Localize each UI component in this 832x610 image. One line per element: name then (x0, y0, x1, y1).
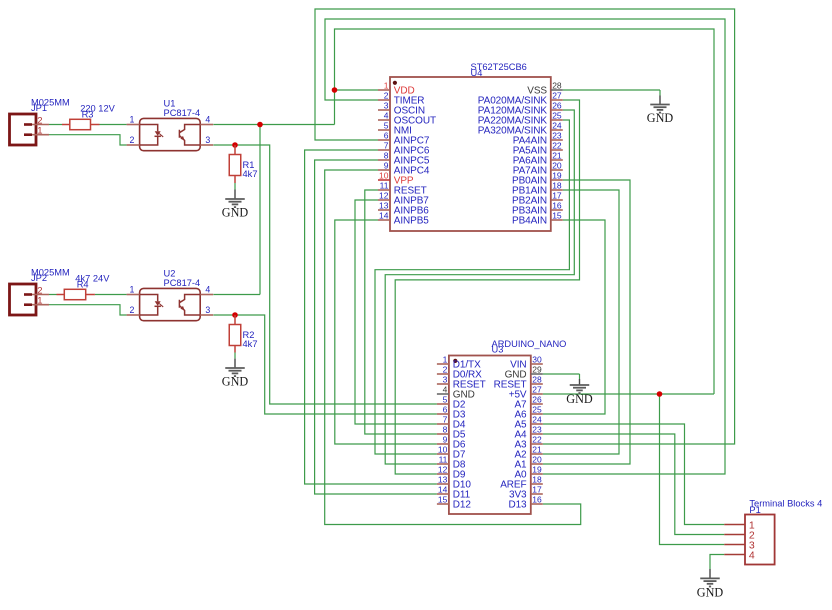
svg-text:12: 12 (379, 191, 389, 201)
svg-text:4k7: 4k7 (243, 339, 258, 349)
svg-text:16: 16 (532, 495, 542, 505)
svg-text:15: 15 (552, 211, 562, 221)
wire net AINPC7: U4.6 to U3.A3 (outer top loop) (315, 9, 735, 444)
U4 pin 4 OSCOUT (378, 111, 436, 127)
connector JP1 M025MM (10, 97, 70, 145)
U3 pin 19 A0 (514, 465, 542, 481)
svg-text:29: 29 (532, 365, 542, 375)
wire net OUT2: U2.3 / R2 to U3.D3 (213, 315, 437, 414)
wire net PA2: U4.25 to U3.D7 (375, 120, 569, 454)
U3 pin 4 GND (437, 385, 475, 401)
junction OUT2 at R2 top (232, 312, 238, 318)
svg-text:6: 6 (384, 131, 389, 141)
optocoupler U2 PC817-4 (127, 268, 214, 320)
svg-text:9: 9 (443, 435, 448, 445)
svg-text:17: 17 (552, 191, 562, 201)
U4 pin 20 PA7AIN (513, 161, 563, 177)
svg-text:1: 1 (37, 296, 42, 307)
svg-text:4: 4 (205, 115, 210, 125)
U3 pin 9 D6 (437, 435, 466, 451)
svg-text:U1: U1 (164, 98, 176, 108)
wire net PA0: U4.27 to U3.D9 (395, 100, 579, 474)
U4 pin 13 AINPB6 (378, 201, 429, 217)
U3 pin 23 A4 (514, 425, 542, 441)
U3 pin 5 D2 (437, 395, 466, 411)
wire net PB0AIN: U4.19 to U3.A1 (543, 180, 630, 464)
svg-text:24: 24 (532, 415, 542, 425)
U4 pin 9 AINPC4 (378, 161, 430, 177)
resistor R3 220 (12V input) (62, 104, 116, 130)
svg-text:28: 28 (552, 81, 562, 91)
svg-text:25: 25 (552, 111, 562, 121)
U3 pin 11 D8 (437, 455, 466, 471)
svg-text:7: 7 (384, 141, 389, 151)
svg-text:GND: GND (697, 586, 724, 600)
U3 pin 30 VIN (510, 355, 543, 371)
svg-text:30: 30 (532, 355, 542, 365)
svg-text:10: 10 (438, 445, 448, 455)
U3 pin 29 GND (505, 365, 543, 381)
U4 pin 24 PA320MA/SINK (478, 121, 563, 137)
wire net PB1AIN: U4.18 to U3.A2 (543, 190, 619, 454)
svg-text:2: 2 (384, 91, 389, 101)
svg-text:9: 9 (384, 161, 389, 171)
U3 pin 8 D5 (437, 425, 466, 441)
svg-text:8: 8 (443, 425, 448, 435)
svg-text:PC817-4: PC817-4 (164, 108, 201, 118)
U4 pin 14 AINPB5 (378, 211, 429, 227)
U4 pin 10 VPP (378, 171, 414, 187)
svg-text:19: 19 (552, 171, 562, 181)
wire net AINPC5: U4.8 to U3.D11 (315, 160, 437, 494)
U3 pin 21 A2 (514, 445, 542, 461)
U4 pin 19 PB0AIN (512, 171, 563, 187)
svg-text:5: 5 (384, 121, 389, 131)
wire net AINPC6: U4.7 to U3.D10 (305, 150, 437, 484)
svg-text:4: 4 (384, 111, 389, 121)
U3 pin 14 D11 (437, 485, 471, 501)
svg-text:GND: GND (222, 375, 249, 389)
svg-text:1: 1 (384, 81, 389, 91)
svg-text:3: 3 (384, 101, 389, 111)
U4 pin 26 PA120MA/SINK (478, 101, 563, 117)
svg-text:GND: GND (647, 111, 674, 125)
svg-text:26: 26 (552, 101, 562, 111)
svg-text:28: 28 (532, 375, 542, 385)
U4 pin 18 PB1AIN (512, 181, 563, 197)
U3 pin 24 A5 (514, 415, 542, 431)
U3 pin 18 AREF (500, 475, 543, 491)
U3 pin 26 A7 (514, 395, 542, 411)
svg-text:14: 14 (379, 211, 389, 221)
U4 pin 23 PA4AIN (513, 131, 563, 147)
U4 pin 8 AINPC5 (378, 151, 430, 167)
U4 pin 1 VDD (378, 81, 415, 97)
connector JP2 M025MM (10, 267, 70, 315)
resistor R1 4k7 (234, 145, 236, 155)
U4 pin 3 OSCIN (378, 101, 425, 117)
wire net AINPB7: U4.12 to U3.D4 (355, 200, 437, 424)
svg-text:JP1: JP1 (31, 103, 47, 113)
svg-text:20: 20 (532, 455, 542, 465)
svg-text:2: 2 (443, 365, 448, 375)
svg-text:R4: R4 (77, 280, 89, 290)
U3 pin 2 D0/RX (437, 365, 482, 381)
U3 pin 7 D4 (437, 415, 466, 431)
svg-text:12: 12 (438, 465, 448, 475)
svg-text:PC817-4: PC817-4 (164, 278, 201, 288)
wire net RESET: U4.11 to U3.D5 (365, 190, 437, 434)
svg-text:18: 18 (532, 475, 542, 485)
U3 pin 6 D3 (437, 405, 466, 421)
svg-text:1: 1 (129, 285, 134, 295)
svg-text:11: 11 (380, 181, 389, 191)
ground GND at R2 (222, 353, 249, 389)
ground GND at U3 pin29 (566, 374, 593, 406)
svg-text:D12: D12 (453, 499, 472, 510)
U4 pin 16 PB3AIN (512, 201, 563, 217)
svg-text:5: 5 (443, 395, 448, 405)
U4 pin 17 PB2AIN (512, 191, 563, 207)
wire net A4: U3.A4 to P1.2 (543, 434, 725, 535)
svg-text:PB4AIN: PB4AIN (512, 215, 547, 226)
wire VDD net: U1.4 / U2.4 / U4.1 VDD / U3 +5V / P1.3 (inner top loop) (213, 29, 724, 545)
svg-text:17: 17 (532, 485, 542, 495)
svg-text:6: 6 (443, 405, 448, 415)
U3 pin 28 RESET (494, 375, 543, 391)
wire JP2.2 to R4 and R4 to U2.1 (49, 294, 127, 296)
svg-text:4: 4 (443, 385, 448, 395)
U4 pin 5 NMI (378, 121, 412, 137)
P1 pin 1 (724, 519, 755, 531)
svg-text:15: 15 (438, 495, 448, 505)
wire net VSS to ground (563, 89, 660, 91)
svg-text:1: 1 (443, 355, 448, 365)
svg-text:23: 23 (552, 131, 562, 141)
U3 pin 27 +5V (509, 385, 543, 401)
wire net A5: U3.A5 to P1.1 (543, 424, 725, 525)
svg-text:U3: U3 (492, 345, 504, 355)
svg-text:21: 21 (532, 445, 542, 455)
U3 pin 12 D9 (437, 465, 466, 481)
connector P1 Terminal Blocks 4 (745, 499, 822, 565)
wire net TIMER: U4.2 to U3.A0 (middle top loop) (325, 19, 725, 474)
svg-text:2: 2 (129, 305, 134, 315)
svg-text:22: 22 (552, 141, 562, 151)
U4 pin 22 PA5AIN (513, 141, 563, 157)
U3 pin 3 RESET (437, 375, 486, 391)
svg-text:24: 24 (552, 121, 562, 131)
svg-text:25: 25 (532, 405, 542, 415)
svg-text:27: 27 (532, 385, 542, 395)
svg-text:2: 2 (129, 135, 134, 145)
junction VDD at U4 pin1 (332, 87, 338, 93)
wire net AINPC4: U4.9 to U3.D13 (routed under U3) (325, 170, 581, 525)
svg-text:1: 1 (129, 115, 134, 125)
svg-text:GND: GND (566, 392, 593, 406)
svg-text:JP2: JP2 (31, 273, 47, 283)
wire net AINPB5: U4.14 to U3.D6 (335, 220, 437, 444)
svg-text:P1: P1 (749, 505, 760, 515)
U4 pin 2 TIMER (378, 91, 424, 107)
U3 pin 25 A6 (514, 405, 542, 421)
wire JP1.1 to U1.2 (49, 135, 127, 145)
wire net OUT1: U1.3 / R1 to U3.D2 (213, 145, 437, 404)
U3 pin 15 D12 (437, 495, 471, 511)
wire JP1.2 to R3 and R3 to U1.1 (49, 124, 127, 126)
wire net PB4AIN: U4.15 to U3.A6 (543, 220, 605, 414)
svg-text:3: 3 (205, 305, 210, 315)
U4 pin 12 AINPB7 (378, 191, 429, 207)
U3 pin 16 D13 (508, 495, 542, 511)
svg-text:D13: D13 (508, 499, 527, 510)
U3 pin 13 D10 (437, 475, 471, 491)
ground GND at R1 (222, 183, 249, 220)
svg-text:11: 11 (439, 455, 448, 465)
svg-text:3: 3 (205, 135, 210, 145)
wire P1.4 to ground (710, 555, 724, 570)
svg-text:4: 4 (749, 549, 755, 561)
U4 pin 11 RESET (378, 181, 427, 197)
wire JP2.1 to U2.2 (49, 305, 127, 315)
svg-text:13: 13 (438, 475, 448, 485)
op-amp U3 ARDUINO_NANO body (449, 339, 567, 514)
svg-text:AINPB5: AINPB5 (394, 215, 430, 226)
svg-text:22: 22 (532, 435, 542, 445)
op-amp U4 ST62T25CB6 microcontroller body (390, 62, 551, 231)
wire net PA1: U4.26 to U3.D8 (385, 110, 574, 464)
svg-text:4: 4 (205, 285, 210, 295)
wire net U3 GND pin29 to ground (543, 373, 580, 375)
P1 pin 4 (724, 549, 755, 561)
U3 pin 20 A1 (514, 455, 542, 471)
svg-text:19: 19 (532, 465, 542, 475)
U4 pin 21 PA6AIN (513, 151, 563, 167)
U4 pin 27 PA020MA/SINK (478, 91, 563, 107)
svg-text:21: 21 (552, 151, 562, 161)
U4 pin 15 PB4AIN (512, 211, 563, 227)
junction OUT1 at R1 top (232, 142, 238, 148)
U4 pin 7 AINPC6 (378, 141, 430, 157)
svg-text:13: 13 (379, 201, 389, 211)
svg-text:3: 3 (443, 375, 448, 385)
U3 pin 10 D7 (437, 445, 466, 461)
P1 pin 3 (724, 539, 755, 551)
svg-text:14: 14 (438, 485, 448, 495)
svg-text:23: 23 (532, 425, 542, 435)
optocoupler U1 PC817-4 (127, 98, 214, 150)
U3 pin 22 A3 (514, 435, 542, 451)
U4 pin 25 PA220MA/SINK (478, 111, 563, 127)
ground GND at U4 VSS (647, 90, 674, 125)
P1 pin 2 (724, 529, 755, 541)
resistor R4 4k7 (24V input) (57, 274, 111, 300)
U4 pin 28 VSS (527, 81, 563, 97)
svg-text:7: 7 (443, 415, 448, 425)
svg-text:U2: U2 (164, 268, 176, 278)
svg-text:1: 1 (37, 126, 42, 137)
junction VDD at U1 pin4 (257, 122, 263, 128)
resistor R2 4k7 (234, 315, 236, 325)
svg-text:16: 16 (552, 201, 562, 211)
junction +5V at U3 pin27 branch to P1.3 (657, 391, 663, 397)
U3 pin 1 D1/TX (437, 355, 481, 371)
svg-text:GND: GND (222, 206, 249, 220)
svg-text:10: 10 (379, 171, 389, 181)
ground GND at P1 pin4 (697, 569, 724, 600)
svg-text:4k7: 4k7 (243, 169, 258, 179)
svg-text:R3: R3 (82, 110, 94, 120)
U4 pin 6 AINPC7 (378, 131, 430, 147)
svg-text:18: 18 (552, 181, 562, 191)
svg-text:8: 8 (384, 151, 389, 161)
svg-text:27: 27 (552, 91, 562, 101)
svg-text:26: 26 (532, 395, 542, 405)
svg-text:U4: U4 (471, 68, 483, 78)
svg-text:20: 20 (552, 161, 562, 171)
U3 pin 17 3V3 (509, 485, 543, 501)
